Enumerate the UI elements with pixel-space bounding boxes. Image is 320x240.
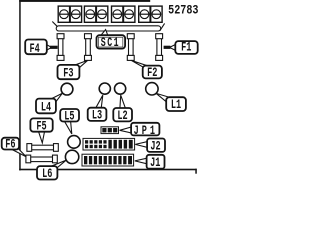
svg-text:52783: 52783 xyxy=(168,5,199,18)
svg-text:F5: F5 xyxy=(36,120,47,134)
svg-text:F3: F3 xyxy=(63,67,74,81)
svg-text:F2: F2 xyxy=(147,66,157,80)
svg-text:F1: F1 xyxy=(181,41,192,55)
svg-text:L6: L6 xyxy=(42,168,52,182)
svg-text:L4: L4 xyxy=(41,101,52,115)
svg-text:L1: L1 xyxy=(171,98,182,112)
svg-text:J2: J2 xyxy=(150,140,160,154)
svg-text:SC1: SC1 xyxy=(101,37,120,51)
svg-text:L3: L3 xyxy=(92,109,103,123)
svg-text:F6: F6 xyxy=(5,138,15,152)
svg-text:JP1: JP1 xyxy=(134,125,158,139)
svg-text:L5: L5 xyxy=(64,110,75,124)
svg-text:L2: L2 xyxy=(117,109,127,123)
svg-text:J1: J1 xyxy=(150,157,161,171)
svg-text:F4: F4 xyxy=(29,42,40,56)
